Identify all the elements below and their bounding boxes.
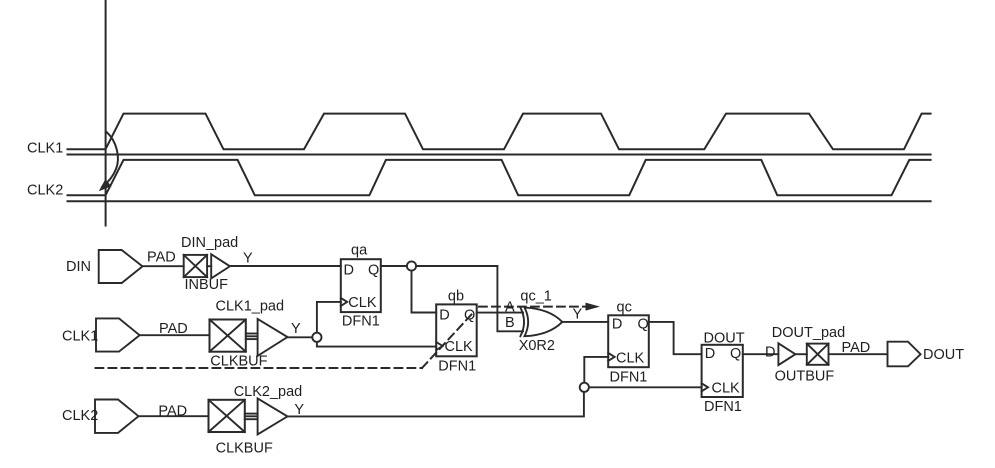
svg-text:DFN1: DFN1: [610, 370, 648, 386]
svg-text:Q: Q: [638, 317, 649, 333]
svg-text:D: D: [439, 308, 449, 324]
svg-text:A: A: [505, 300, 515, 316]
wire DIN pad to INBUF: [143, 265, 184, 267]
time cursor vertical line: [105, 0, 107, 226]
svg-text:X0R2: X0R2: [519, 338, 555, 354]
svg-text:Y: Y: [243, 251, 253, 267]
input pad CLK1: [96, 318, 140, 351]
svg-text:CLK: CLK: [712, 380, 741, 396]
node junction CLK1 net: [312, 333, 321, 342]
svg-text:PAD: PAD: [147, 250, 176, 266]
wire CLK2 net to DOUT CLK: [288, 392, 584, 417]
svg-text:OUTBUF: OUTBUF: [775, 368, 835, 384]
CLK2 waveform: [68, 160, 931, 195]
qc clock wedge: [608, 353, 614, 361]
node junction CLK2 net: [580, 383, 589, 392]
wire OUTBUF to DOUT pad: [829, 353, 888, 355]
wire clock node down to qb CLK: [317, 341, 436, 347]
clock buffer CLKBUF pad square (CLK2): [209, 400, 245, 432]
wire down to XOR B input: [497, 266, 523, 331]
svg-text:CLK1_pad: CLK1_pad: [216, 299, 285, 315]
svg-text:PAD: PAD: [159, 321, 188, 337]
svg-text:qc_1: qc_1: [520, 289, 551, 305]
svg-text:Q: Q: [464, 308, 475, 324]
CLKBUF stripe connector (CLK2): [245, 413, 258, 415]
svg-text:qa: qa: [351, 243, 368, 259]
buffer OUTBUF pad square: [807, 344, 829, 365]
qa clock wedge: [341, 298, 347, 306]
svg-text:CLK2: CLK2: [62, 408, 98, 424]
svg-text:DIN_pad: DIN_pad: [181, 235, 238, 251]
svg-text:CLKBUF: CLKBUF: [210, 353, 267, 369]
svg-text:DOUT: DOUT: [704, 331, 745, 347]
svg-text:CLK: CLK: [445, 339, 474, 355]
skew arc arrow: [103, 132, 118, 187]
svg-text:PAD: PAD: [842, 340, 871, 356]
input pad DIN: [99, 250, 143, 283]
wire XOR output Y to qc D: [562, 321, 608, 323]
wire branch down to qb D: [412, 266, 437, 313]
CLK2 baseline rail: [68, 200, 931, 202]
wire qb Q to XOR A input: [477, 312, 523, 314]
output pad DOUT: [888, 342, 921, 367]
wire INBUF output Y to qa D: [230, 265, 341, 267]
flip-flop DOUT DFN1: [702, 345, 743, 397]
wire CLK2 pad to CLKBUF: [139, 415, 209, 417]
svg-text:D: D: [765, 344, 775, 360]
flip-flop qc DFN1: [608, 315, 649, 367]
svg-text:DFN1: DFN1: [438, 358, 476, 374]
dashed annotation arrowhead: [586, 303, 601, 311]
wire DOUT Q to OUTBUF: [743, 353, 779, 355]
wire qa Q output: [381, 265, 498, 267]
svg-text:DFN1: DFN1: [342, 313, 380, 329]
svg-text:CLK2_pad: CLK2_pad: [234, 384, 303, 400]
wire qa CLK from clock node: [317, 302, 341, 333]
svg-text:PAD: PAD: [158, 403, 187, 419]
svg-text:CLK2: CLK2: [27, 182, 63, 198]
clock buffer CLKBUF triangle (CLK2): [258, 398, 288, 434]
xor gate X0R2 input arc: [520, 308, 524, 337]
svg-text:Y: Y: [291, 321, 301, 337]
wire CLK2 net up to qc CLK: [584, 357, 608, 383]
flip-flop qa DFN1: [341, 259, 381, 312]
svg-text:DOUT: DOUT: [923, 347, 964, 363]
svg-text:B: B: [505, 315, 515, 331]
svg-text:CLK: CLK: [348, 295, 377, 311]
qb clock wedge: [436, 342, 442, 350]
clock buffer CLKBUF pad square (CLK1): [210, 320, 246, 352]
CLK1 baseline rail: [68, 154, 931, 156]
buffer INBUF pad square: [184, 255, 207, 277]
svg-text:qc: qc: [617, 299, 632, 315]
svg-text:DOUT_pad: DOUT_pad: [772, 325, 845, 341]
svg-text:D: D: [344, 262, 354, 278]
wire OUTBUF triangle to pad square: [795, 353, 806, 355]
clock buffer CLKBUF triangle (CLK1): [258, 319, 288, 356]
dashed annotation path qb Q to qc_1: [96, 367, 423, 369]
svg-text:Y: Y: [294, 402, 304, 418]
svg-text:CLK: CLK: [616, 351, 645, 367]
flip-flop qb DFN1: [436, 304, 477, 356]
DOUT clock wedge: [702, 383, 708, 391]
svg-text:CLK1: CLK1: [27, 140, 63, 156]
svg-text:D: D: [612, 317, 622, 333]
svg-text:DFN1: DFN1: [704, 399, 742, 415]
wire INBUF square to triangle: [207, 265, 211, 267]
svg-text:Y: Y: [573, 306, 583, 322]
input pad CLK2: [95, 400, 139, 433]
svg-text:Q: Q: [368, 262, 379, 278]
wire CLK2 node to DOUT FF CLK: [589, 386, 702, 388]
svg-text:qb: qb: [448, 288, 464, 304]
svg-text:CLKBUF: CLKBUF: [216, 441, 273, 457]
wire qc Q to DOUT D: [649, 322, 702, 354]
wire CLKBUF Y to clock node: [288, 336, 313, 338]
svg-text:Q: Q: [730, 346, 741, 362]
buffer OUTBUF triangle: [778, 343, 795, 365]
CLK1 waveform: [68, 114, 931, 150]
CLKBUF stripe connector (CLK1): [246, 333, 258, 335]
svg-text:CLK1: CLK1: [62, 328, 98, 344]
svg-text:DIN: DIN: [66, 259, 91, 275]
svg-text:INBUF: INBUF: [185, 277, 229, 293]
wire CLK1 pad to CLKBUF: [140, 334, 210, 336]
svg-text:D: D: [705, 346, 715, 362]
xor gate X0R2 body: [525, 308, 563, 337]
node junction after qa Q: [407, 261, 416, 270]
buffer INBUF triangle: [211, 254, 230, 278]
